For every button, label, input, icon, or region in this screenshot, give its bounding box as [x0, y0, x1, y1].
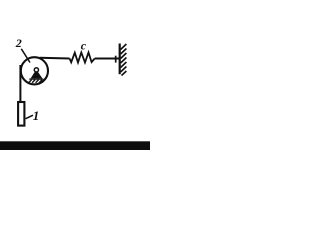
spring c — [70, 53, 95, 63]
svg-text:1: 1 — [33, 108, 40, 123]
block 1 (rectangle) — [18, 102, 24, 126]
anchor tick at wall — [115, 56, 117, 63]
bottom black band — [0, 141, 150, 150]
ground line under pin support — [29, 78, 43, 80]
svg-text:c: c — [81, 38, 87, 52]
wire: rope from pulley down to block — [19, 65, 21, 102]
wall (vertical line) — [119, 44, 121, 75]
pulley 2 (outer circle) — [21, 57, 48, 84]
pin support triangle inside pulley — [31, 70, 43, 79]
wall hatching — [121, 44, 127, 76]
leader line for label 2 — [21, 49, 30, 63]
pin circle — [34, 68, 38, 72]
svg-text:2: 2 — [15, 36, 22, 50]
wire: rope from pulley top to spring — [40, 57, 70, 60]
leader line for label 1 — [26, 115, 33, 119]
ground hatching — [29, 80, 45, 83]
wire: spring to wall — [95, 58, 120, 60]
